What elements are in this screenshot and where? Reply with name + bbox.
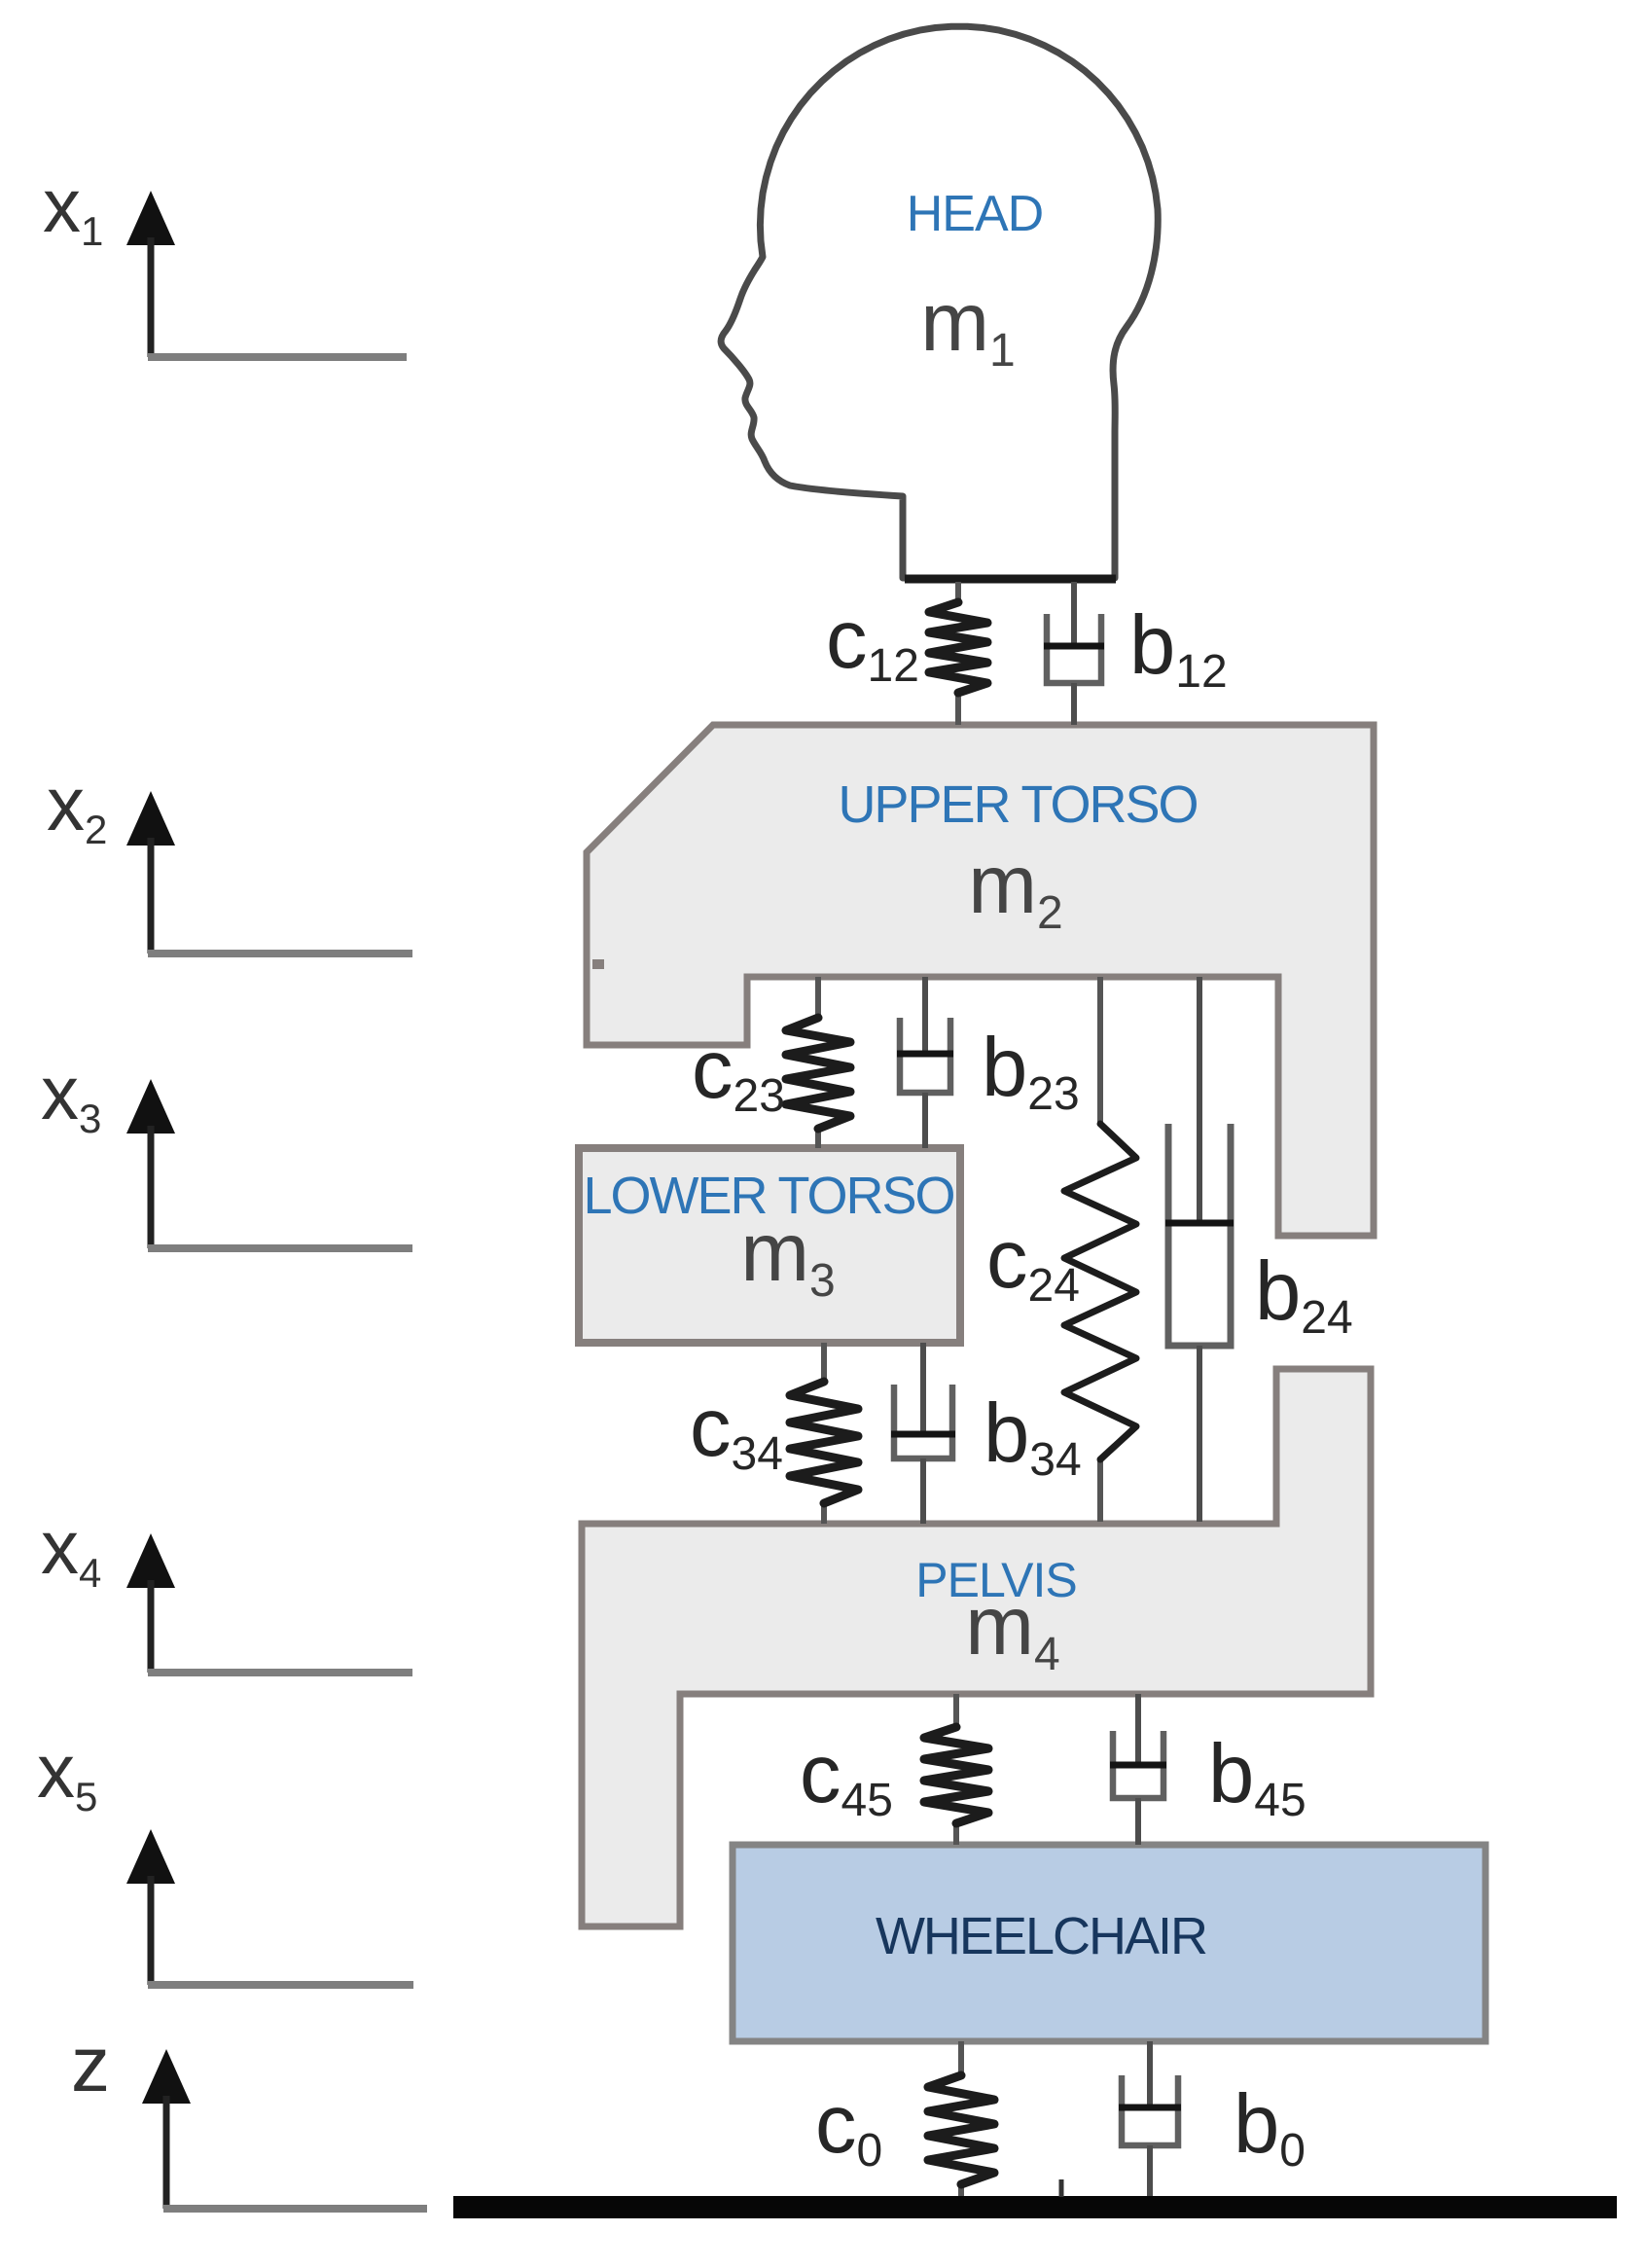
svg-text:UPPER TORSO: UPPER TORSO [838,775,1197,834]
svg-text:z: z [71,2021,110,2107]
svg-text:WHEELCHAIR: WHEELCHAIR [876,1907,1206,1965]
svg-text:HEAD: HEAD [907,186,1043,242]
